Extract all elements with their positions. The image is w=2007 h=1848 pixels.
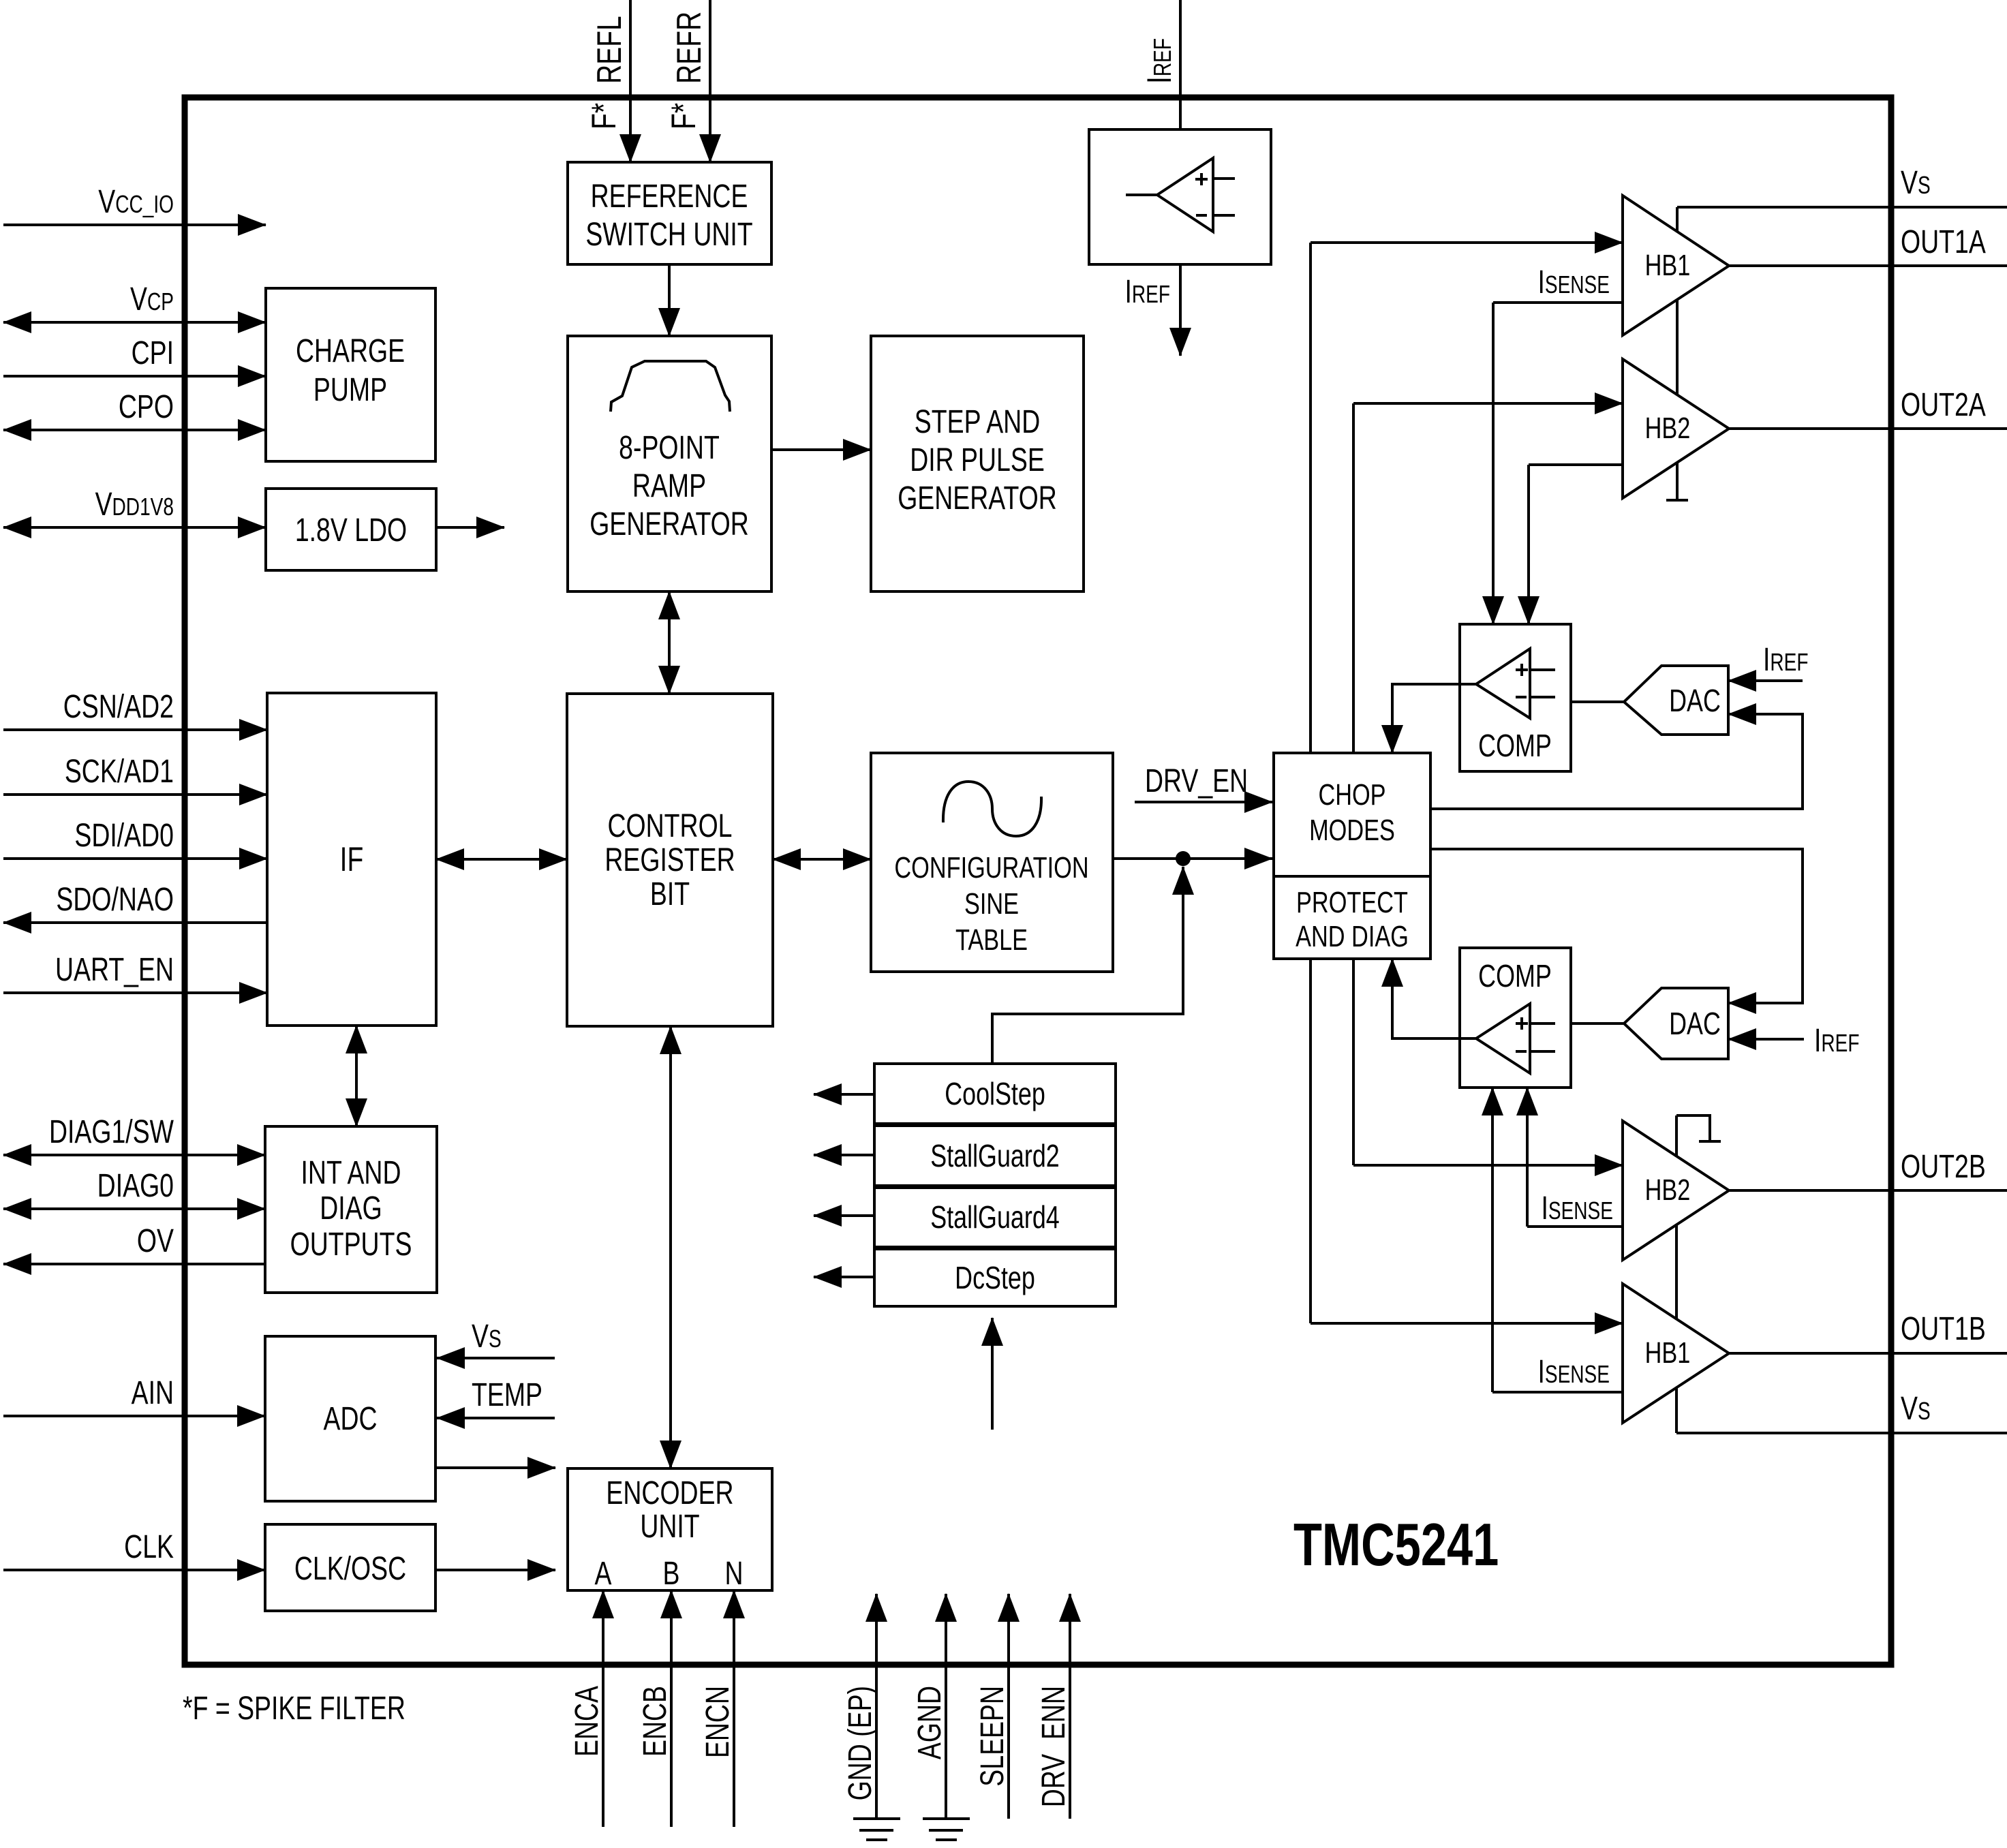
wire VCC_IO bbox=[3, 224, 266, 226]
comparator triangle U1 bbox=[1157, 158, 1213, 232]
comparator triangle upper bbox=[1476, 649, 1530, 718]
svg-text:RAMP: RAMP bbox=[632, 468, 706, 505]
svg-text:HB1: HB1 bbox=[1645, 249, 1691, 282]
svg-text:8-POINT: 8-POINT bbox=[619, 430, 720, 467]
svg-text:CONTROL: CONTROL bbox=[608, 808, 733, 845]
svg-text:ENCODER: ENCODER bbox=[606, 1475, 733, 1512]
wire ENCN bbox=[733, 1590, 735, 1827]
terminal bar bottom bbox=[1699, 1140, 1721, 1143]
chip outer border bbox=[185, 97, 1891, 1665]
svg-text:CSN/AD2: CSN/AD2 bbox=[63, 689, 174, 726]
wire AIN bbox=[3, 1415, 265, 1417]
wire CRB-ENCODER bidirectional bbox=[669, 1026, 672, 1468]
plus sign upper comp bbox=[1516, 668, 1528, 671]
stub + lower bbox=[1530, 1022, 1555, 1025]
wire HB2 gate bus vertical bbox=[1352, 403, 1355, 1165]
svg-text:SDI/AD0: SDI/AD0 bbox=[74, 818, 174, 854]
wire VS top bbox=[1677, 206, 2007, 209]
ground symbol GND (EP) bbox=[853, 1817, 900, 1820]
wire VS to ADC bbox=[437, 1357, 555, 1359]
svg-text:DIAG: DIAG bbox=[320, 1190, 382, 1227]
svg-text:GND (EP): GND (EP) bbox=[842, 1686, 879, 1800]
svg-text:B: B bbox=[663, 1556, 680, 1592]
svg-text:PROTECT: PROTECT bbox=[1296, 886, 1408, 919]
wire GND (EP) bbox=[875, 1594, 878, 1819]
wire CRB-CONFIG bidirectional bbox=[773, 858, 871, 861]
svg-text:ENCA: ENCA bbox=[569, 1686, 606, 1757]
svg-text:OUT1A: OUT1A bbox=[1901, 224, 1986, 261]
wire CONFIG to CHOP bbox=[1113, 857, 1272, 860]
block COMP upper bbox=[1460, 624, 1571, 771]
wire sense HB2A bbox=[1529, 463, 1623, 466]
stub + upper bbox=[1530, 668, 1555, 671]
wire IF-INTDIAG bidirectional bbox=[355, 1026, 358, 1126]
wire CSN/AD2 bbox=[3, 728, 267, 731]
svg-text:CLK/OSC: CLK/OSC bbox=[294, 1551, 406, 1588]
wire OUT2B bbox=[1729, 1189, 2007, 1192]
svg-text:OUT2A: OUT2A bbox=[1901, 387, 1986, 424]
wire LDO output bbox=[436, 526, 476, 529]
svg-text:A: A bbox=[595, 1556, 612, 1592]
wire DAC to COMP upper bbox=[1571, 700, 1624, 703]
wire CoolStep out bbox=[814, 1093, 874, 1096]
svg-text:F*: F* bbox=[664, 103, 703, 129]
wire ENCB bbox=[670, 1590, 673, 1827]
sine wave icon bbox=[943, 782, 1041, 836]
block StallGuard4 bbox=[874, 1188, 1116, 1247]
stub - lower bbox=[1530, 1050, 1555, 1053]
svg-text:CHARGE: CHARGE bbox=[296, 333, 405, 370]
svg-text:N: N bbox=[724, 1556, 743, 1592]
wire CPO bbox=[3, 429, 266, 431]
block DcStep bbox=[874, 1249, 1116, 1306]
wire CLK/OSC to encoder bbox=[435, 1569, 555, 1571]
wire CLK bbox=[3, 1569, 265, 1571]
minus sign upper comp bbox=[1516, 696, 1527, 698]
wire OUT2A bbox=[1729, 427, 2007, 430]
block StallGuard2 bbox=[874, 1126, 1116, 1186]
block CONTROL REGISTER BIT bbox=[567, 694, 773, 1026]
block ENCODER UNIT bbox=[568, 1468, 772, 1590]
svg-text:HB1: HB1 bbox=[1645, 1336, 1691, 1370]
block CONFIGURATION SINE TABLE bbox=[871, 753, 1113, 972]
svg-text:TMC5241: TMC5241 bbox=[1293, 1511, 1499, 1578]
svg-text:COMP: COMP bbox=[1478, 959, 1552, 994]
block 8-POINT RAMP GENERATOR bbox=[568, 336, 771, 591]
wire DRV_ENN bbox=[1069, 1594, 1071, 1819]
block COMP lower bbox=[1460, 948, 1571, 1088]
svg-text:REFERENCE: REFERENCE bbox=[591, 179, 748, 215]
svg-text:HB2: HB2 bbox=[1645, 1173, 1691, 1207]
svg-text:SCK/AD1: SCK/AD1 bbox=[65, 754, 174, 790]
wire IREF to DAC lower bbox=[1728, 1038, 1804, 1041]
wire DRV_EN bbox=[1135, 801, 1272, 803]
svg-text:DcStep: DcStep bbox=[955, 1261, 1035, 1295]
block 1.8V LDO bbox=[266, 489, 436, 570]
svg-text:F*: F* bbox=[584, 103, 623, 129]
half bridge HB2 (OUT2B) bbox=[1623, 1121, 1729, 1260]
svg-text:SINE: SINE bbox=[964, 887, 1019, 921]
ramp profile icon bbox=[611, 361, 730, 412]
svg-text:AGND: AGND bbox=[912, 1686, 949, 1759]
wire ISENSE HB1B to COMP bbox=[1491, 1088, 1494, 1392]
minus sign bbox=[1196, 214, 1207, 217]
svg-text:TABLE: TABLE bbox=[955, 923, 1028, 957]
wire SCK/AD1 bbox=[3, 793, 267, 796]
svg-text:DIAG0: DIAG0 bbox=[97, 1168, 174, 1205]
block CoolStep bbox=[874, 1064, 1116, 1124]
svg-text:SLEEPN: SLEEPN bbox=[975, 1686, 1011, 1787]
svg-text:DAC: DAC bbox=[1669, 1006, 1721, 1041]
wire AGND bbox=[945, 1594, 947, 1819]
svg-text:SDO/NAO: SDO/NAO bbox=[56, 882, 174, 919]
wire ADC to encoder bbox=[435, 1466, 555, 1469]
wire gate to HB2B bbox=[1353, 1164, 1623, 1167]
comparator input stub + bbox=[1213, 177, 1235, 180]
wire gate to HB1A bbox=[1311, 241, 1623, 244]
svg-text:DRV_EN: DRV_EN bbox=[1145, 763, 1248, 800]
wire gate to HB2A bbox=[1353, 402, 1623, 405]
svg-text:*F = SPIKE FILTER: *F = SPIKE FILTER bbox=[183, 1691, 405, 1727]
svg-text:STEP AND: STEP AND bbox=[915, 404, 1040, 441]
wire REFR bbox=[709, 0, 711, 162]
comparator output stub bbox=[1126, 194, 1157, 196]
block IF bbox=[267, 693, 436, 1026]
wire IREF to DAC upper bbox=[1728, 679, 1803, 682]
svg-text:SWITCH UNIT: SWITCH UNIT bbox=[585, 217, 752, 253]
svg-text:REFL: REFL bbox=[589, 16, 628, 84]
wire VS rail top vertical bbox=[1676, 207, 1679, 500]
wire ISENSE HB2B bbox=[1527, 1225, 1623, 1228]
wire SLEEPN bbox=[1007, 1594, 1010, 1819]
svg-text:IF: IF bbox=[340, 840, 364, 878]
svg-text:1.8V LDO: 1.8V LDO bbox=[295, 512, 407, 549]
wire CHOP feedback to DAC upper bbox=[1430, 714, 1803, 809]
minus sign lower comp bbox=[1516, 1050, 1527, 1053]
junction node dot bbox=[1176, 851, 1191, 866]
wire VCP bbox=[3, 321, 266, 324]
svg-text:StallGuard4: StallGuard4 bbox=[930, 1200, 1059, 1235]
divider line bbox=[1274, 875, 1430, 878]
svg-text:OUTPUTS: OUTPUTS bbox=[290, 1227, 412, 1263]
wire ISENSE HB1A to COMP bbox=[1492, 303, 1495, 624]
wire REFL bbox=[629, 0, 632, 162]
svg-text:CPI: CPI bbox=[132, 335, 174, 372]
wire DIAG0 bbox=[3, 1207, 265, 1210]
block IREF comparator U1 bbox=[1089, 129, 1271, 264]
block CLK/OSC bbox=[265, 1524, 435, 1611]
svg-text:ENCB: ENCB bbox=[637, 1686, 674, 1757]
svg-text:AND DIAG: AND DIAG bbox=[1296, 920, 1409, 953]
block ADC bbox=[265, 1336, 435, 1501]
svg-text:BIT: BIT bbox=[650, 876, 690, 913]
block STEP AND DIR PULSE GENERATOR bbox=[871, 336, 1084, 591]
wire IF-CRB bidirectional bbox=[436, 858, 567, 861]
wire ISENSE HB1B bbox=[1492, 1391, 1623, 1393]
svg-text:CPO: CPO bbox=[119, 389, 174, 426]
wire ENCA bbox=[602, 1590, 604, 1827]
wire HB1 gate bus vertical bbox=[1309, 243, 1312, 1323]
ground symbol AGND bbox=[923, 1817, 970, 1820]
svg-text:DAC: DAC bbox=[1669, 683, 1721, 718]
svg-text:DIR PULSE: DIR PULSE bbox=[910, 442, 1045, 479]
wire RAMP to STEP bbox=[771, 448, 871, 451]
DAC upper bbox=[1624, 666, 1728, 735]
svg-text:CONFIGURATION: CONFIGURATION bbox=[894, 851, 1088, 884]
wire UART_EN bbox=[3, 991, 267, 994]
wire DcStep bottom input bbox=[991, 1318, 994, 1430]
svg-text:TEMP: TEMP bbox=[472, 1377, 542, 1414]
wire DAC to COMP lower bbox=[1571, 1022, 1624, 1025]
svg-text:REFR: REFR bbox=[669, 12, 708, 84]
wire VS rail bottom vertical bbox=[1675, 1115, 1678, 1433]
wire sense HB2A to COMP bbox=[1527, 465, 1530, 624]
DAC lower bbox=[1624, 988, 1728, 1059]
wire COMP to PROTECT bbox=[1392, 959, 1477, 1038]
svg-text:DRV_ENN: DRV_ENN bbox=[1036, 1686, 1073, 1807]
svg-text:MODES: MODES bbox=[1309, 814, 1395, 847]
half bridge HB2 (OUT2A) bbox=[1623, 359, 1729, 498]
wire VDD1V8 bbox=[3, 526, 266, 529]
svg-text:CoolStep: CoolStep bbox=[945, 1077, 1045, 1111]
svg-text:OUT2B: OUT2B bbox=[1901, 1149, 1986, 1186]
wire StallGuard4 out bbox=[814, 1214, 874, 1217]
svg-text:UNIT: UNIT bbox=[640, 1509, 699, 1545]
svg-text:CHOP: CHOP bbox=[1318, 778, 1385, 812]
svg-text:DIAG1/SW: DIAG1/SW bbox=[49, 1114, 174, 1151]
half bridge HB1 (OUT1B) bbox=[1623, 1284, 1729, 1423]
terminal bar top bbox=[1666, 499, 1688, 502]
wire ISENSE HB1A bbox=[1493, 301, 1623, 304]
wire DcStep out bbox=[814, 1276, 874, 1278]
wire CPI bbox=[3, 375, 266, 378]
block INT AND DIAG OUTPUTS bbox=[265, 1126, 437, 1293]
wire gate to HB1B bbox=[1311, 1322, 1623, 1325]
wire stack to junction bbox=[992, 867, 1183, 1064]
svg-text:OV: OV bbox=[137, 1223, 174, 1260]
wire SDI/AD0 bbox=[3, 857, 267, 860]
plus sign lower comp bbox=[1516, 1022, 1528, 1025]
wire COMP to CHOP bbox=[1392, 684, 1477, 753]
wire IREF top bbox=[1179, 0, 1182, 129]
block REFERENCE SWITCH UNIT bbox=[568, 162, 771, 264]
wire CHOP feedback to DAC lower bbox=[1430, 849, 1803, 1003]
wire SDO/NAO bbox=[3, 921, 267, 924]
plus sign bbox=[1195, 178, 1208, 181]
svg-text:CLK: CLK bbox=[124, 1529, 174, 1566]
wire ISENSE HB2B to COMP bbox=[1526, 1088, 1529, 1227]
wire OV bbox=[3, 1263, 265, 1265]
block CHOP MODES / PROTECT AND DIAG bbox=[1274, 753, 1430, 959]
svg-text:INT AND: INT AND bbox=[301, 1155, 401, 1192]
wire IREF out bbox=[1179, 264, 1182, 356]
block CHARGE PUMP bbox=[266, 288, 435, 461]
comparator triangle lower bbox=[1476, 1004, 1530, 1073]
svg-text:HB2: HB2 bbox=[1645, 412, 1691, 445]
svg-text:GENERATOR: GENERATOR bbox=[589, 506, 749, 543]
svg-text:StallGuard2: StallGuard2 bbox=[930, 1139, 1059, 1173]
svg-text:GENERATOR: GENERATOR bbox=[898, 480, 1057, 517]
wire OUT1A bbox=[1729, 264, 2007, 267]
wire TEMP to ADC bbox=[437, 1417, 555, 1419]
svg-text:OUT1B: OUT1B bbox=[1901, 1311, 1986, 1348]
step hook bottom bbox=[1676, 1115, 1710, 1141]
wire VS bottom bbox=[1676, 1432, 2007, 1434]
wire StallGuard2 out bbox=[814, 1154, 874, 1156]
svg-text:ENCN: ENCN bbox=[700, 1686, 737, 1758]
svg-text:REGISTER: REGISTER bbox=[604, 842, 735, 879]
wire OUT1B bbox=[1729, 1352, 2007, 1355]
wire REF to RAMP bbox=[668, 264, 671, 336]
stub - upper bbox=[1530, 696, 1555, 698]
svg-text:ADC: ADC bbox=[323, 1401, 377, 1438]
wire RAMP-CRB bidirectional bbox=[668, 591, 671, 694]
comparator input stub - bbox=[1213, 214, 1235, 217]
half bridge HB1 (OUT1A) bbox=[1623, 196, 1729, 335]
svg-text:PUMP: PUMP bbox=[313, 372, 387, 409]
svg-text:AIN: AIN bbox=[132, 1375, 174, 1412]
wire DIAG1/SW bbox=[3, 1154, 265, 1156]
svg-text:UART_EN: UART_EN bbox=[55, 952, 174, 989]
svg-text:COMP: COMP bbox=[1478, 728, 1552, 763]
